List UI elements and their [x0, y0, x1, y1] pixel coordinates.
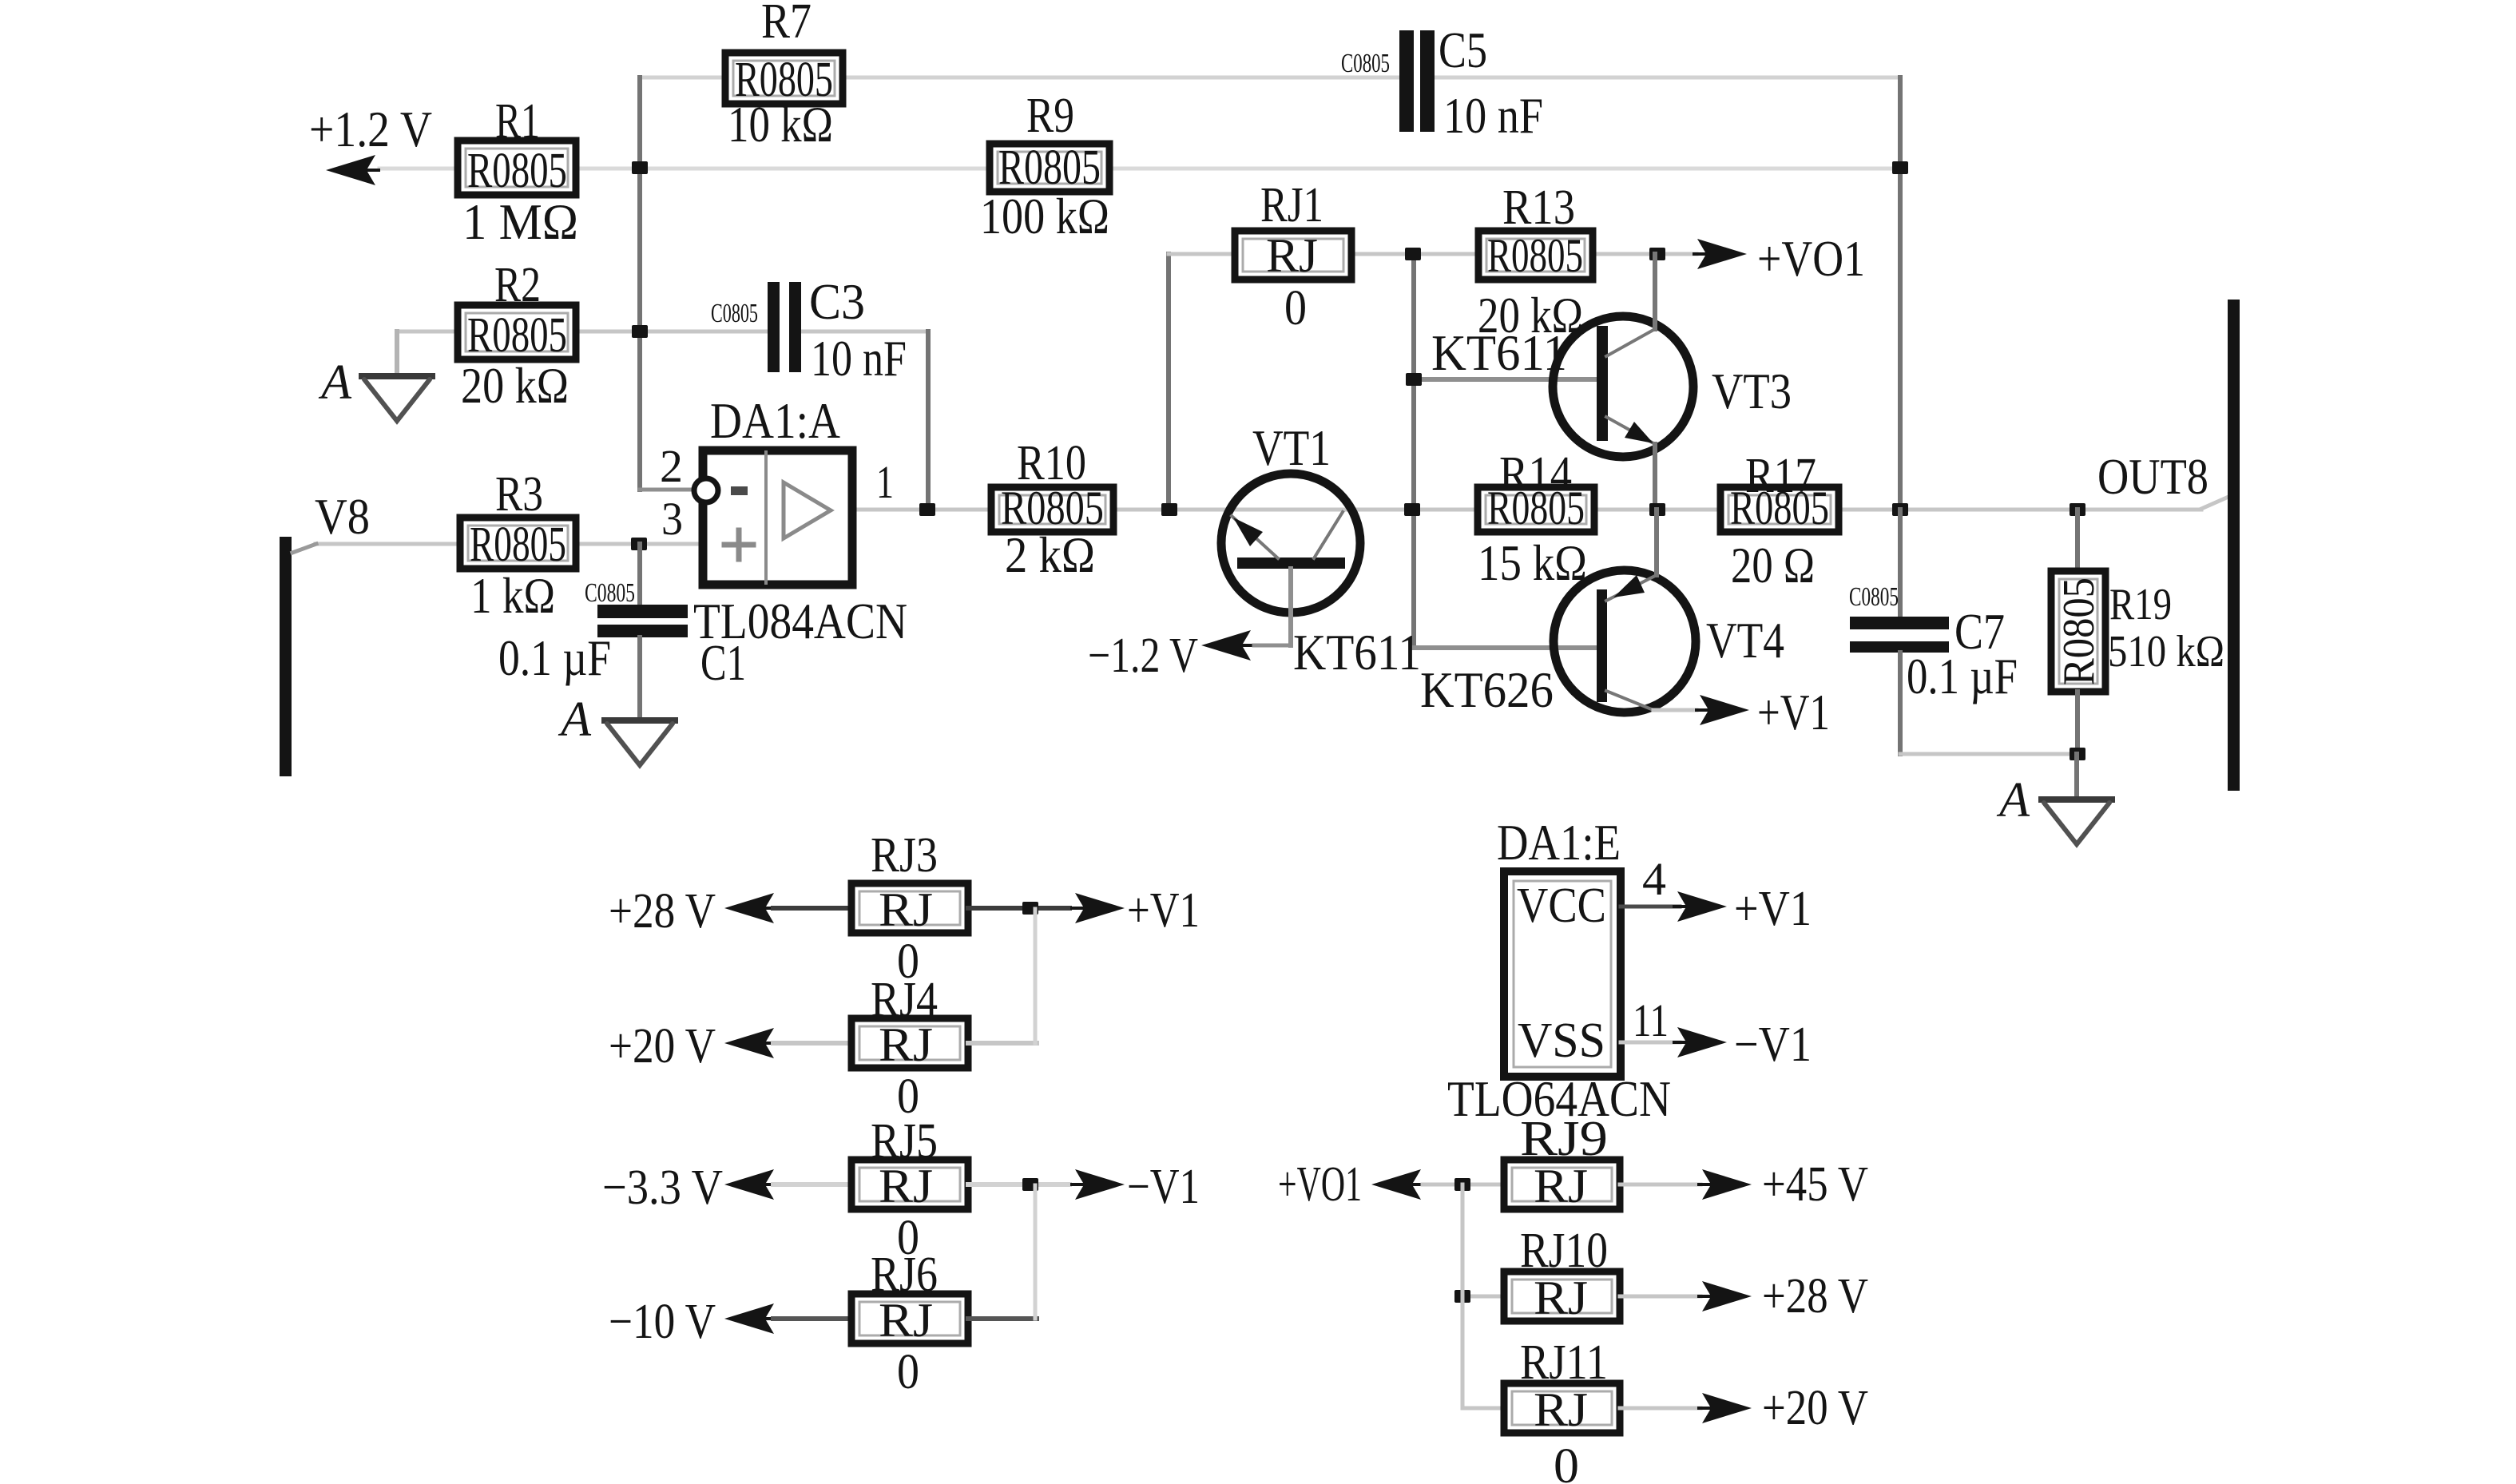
resistor R2 — [458, 305, 576, 359]
resistor R17 — [1720, 487, 1839, 532]
wire inverting input vertical x=801 — [637, 77, 642, 490]
svg-text:−1.2 V: −1.2 V — [1088, 629, 1198, 683]
jumper RJ1 — [1235, 231, 1351, 280]
svg-text:RJ: RJ — [1534, 1160, 1588, 1212]
svg-text:RJ6: RJ6 — [871, 1248, 938, 1302]
resistor R3 — [460, 518, 576, 569]
ground A (R2) — [395, 331, 399, 376]
pin 2 inverting bubble — [694, 478, 718, 502]
svg-text:RJ: RJ — [1266, 229, 1318, 282]
jumper RJ5 — [851, 1160, 968, 1209]
svg-text:VCC: VCC — [1517, 879, 1606, 933]
junction R2/x801 — [632, 325, 648, 338]
jumper RJ3 — [851, 883, 968, 933]
junction C3 feedback to output — [919, 503, 935, 516]
svg-text:+20 V: +20 V — [1762, 1381, 1868, 1435]
resistor R10 — [991, 487, 1113, 532]
svg-text:VT4: VT4 — [1706, 612, 1784, 669]
port +V1 (pin4) — [1673, 891, 1727, 922]
svg-text:1: 1 — [876, 456, 894, 508]
wire C3 to output node — [801, 330, 928, 334]
junction RJ10 left — [1454, 1290, 1470, 1303]
wire pin2 stub — [640, 488, 692, 492]
svg-text:R9: R9 — [1026, 89, 1074, 143]
svg-text:C0805: C0805 — [1341, 49, 1390, 78]
svg-text:+28 V: +28 V — [1762, 1269, 1868, 1323]
svg-text:−V1: −V1 — [1127, 1160, 1200, 1214]
junction RJ5 right — [1022, 1178, 1038, 1191]
wire top feedback rail y=97 — [640, 76, 1399, 80]
ground A (R19) — [2074, 754, 2079, 800]
op-amp U DA1:A — [703, 450, 852, 585]
capacitor C3 — [768, 282, 780, 372]
port +45 V (RJ9) — [1697, 1169, 1752, 1200]
svg-text:R0805: R0805 — [467, 308, 567, 363]
capacitor C7 — [1898, 510, 1903, 617]
svg-text:R0805: R0805 — [1487, 229, 1583, 282]
port -V1 (pin11) — [1673, 1027, 1727, 1057]
svg-text:−3.3 V: −3.3 V — [602, 1161, 723, 1215]
resistor R9 — [990, 144, 1109, 192]
jumper RJ11 — [1504, 1383, 1620, 1433]
junction R19 bottom — [2070, 748, 2085, 760]
svg-text:4: 4 — [1642, 853, 1666, 905]
junction feedback/C7 — [1892, 503, 1908, 516]
resistor R1 — [458, 141, 576, 195]
wire VT3 base y=475 — [1414, 377, 1597, 382]
svg-text:A: A — [318, 355, 352, 410]
svg-text:C0805: C0805 — [1849, 582, 1899, 612]
svg-text:VSS: VSS — [1518, 1014, 1605, 1068]
svg-text:+VO1: +VO1 — [1757, 230, 1865, 287]
junction R14 left — [1404, 503, 1420, 516]
wire base bus vertical x=1770 — [1411, 254, 1416, 648]
jumper RJ10 — [1504, 1272, 1620, 1321]
jumper RJ6 — [851, 1294, 968, 1343]
svg-text:RJ9: RJ9 — [1520, 1112, 1608, 1166]
svg-text:OUT8: OUT8 — [2097, 448, 2208, 505]
junction RJ3 right — [1022, 902, 1038, 915]
port +28 V (RJ10) — [1697, 1281, 1752, 1311]
wire pin 11 — [1621, 1041, 1680, 1045]
port −V1 — [1070, 1169, 1125, 1200]
wire OUT8 slant — [2201, 497, 2228, 509]
svg-text:R0805: R0805 — [470, 518, 566, 572]
svg-text:+20 V: +20 V — [609, 1019, 716, 1073]
svg-text:+1.2 V: +1.2 V — [309, 101, 432, 157]
svg-text:C0805: C0805 — [585, 578, 635, 608]
wire feedback rail y=210 (R1/R9 line) — [379, 167, 1900, 171]
junction output/VT1-collector — [1161, 503, 1177, 516]
transistor VT3 — [1553, 316, 1693, 457]
svg-text:3: 3 — [661, 493, 683, 545]
svg-text:DA1:E: DA1:E — [1497, 814, 1621, 871]
svg-text:VT3: VT3 — [1712, 363, 1792, 419]
junction VT3 base — [1406, 373, 1422, 386]
svg-text:R1: R1 — [495, 94, 540, 149]
junction feedback/x2379 — [1892, 161, 1908, 174]
svg-text:510 kΩ: 510 kΩ — [2108, 627, 2224, 677]
svg-text:2: 2 — [660, 440, 683, 492]
jumper RJ9 — [1504, 1160, 1620, 1209]
junction R13/VT3 collector — [1649, 248, 1665, 260]
wire RJ4 left — [773, 1041, 851, 1046]
svg-text:RJ1: RJ1 — [1260, 178, 1323, 232]
capacitor C5 — [1399, 30, 1414, 132]
wire RJ10 right — [1620, 1295, 1700, 1299]
svg-text:R10: R10 — [1017, 436, 1086, 490]
svg-text:R19: R19 — [2109, 580, 2172, 629]
wire R2 rail y=415 — [397, 330, 768, 334]
wire RJ10 left stub — [1462, 1295, 1504, 1299]
wire link RJ5-RJ6 — [1034, 1185, 1038, 1319]
svg-text:KT626: KT626 — [1420, 661, 1554, 718]
svg-text:R0805: R0805 — [998, 141, 1101, 195]
resistor R14 — [1478, 487, 1594, 532]
svg-text:V8: V8 — [315, 488, 370, 545]
wire link RJ9-RJ11 — [1461, 1184, 1465, 1408]
port V8 connector bar — [280, 537, 292, 776]
svg-text:+V1: +V1 — [1127, 883, 1200, 938]
svg-text:1 MΩ: 1 MΩ — [462, 193, 578, 250]
svg-text:VT1: VT1 — [1252, 419, 1331, 476]
svg-text:RJ11: RJ11 — [1520, 1335, 1608, 1390]
capacitor C1 — [637, 544, 642, 605]
svg-text:1 kΩ: 1 kΩ — [470, 567, 555, 624]
svg-text:20 kΩ: 20 kΩ — [461, 357, 569, 414]
svg-text:+V1: +V1 — [1734, 882, 1812, 936]
junction R1/x801 — [632, 161, 648, 174]
junction pin3/C1 — [631, 538, 647, 550]
wire output rail y=638 — [852, 508, 2201, 512]
svg-text:+28 V: +28 V — [609, 884, 716, 938]
svg-text:15 kΩ: 15 kΩ — [1478, 534, 1587, 591]
svg-text:+V1: +V1 — [1757, 684, 1830, 740]
wire RJ5 left — [773, 1182, 851, 1187]
svg-text:C0805: C0805 — [711, 299, 758, 328]
svg-text:R17: R17 — [1745, 449, 1816, 503]
svg-text:A: A — [558, 692, 592, 747]
wire RJ6 left — [773, 1316, 851, 1321]
wire VT4 base y=811 — [1414, 645, 1597, 650]
svg-text:R14: R14 — [1499, 447, 1572, 502]
resistor R19 (vertical) — [2075, 510, 2080, 571]
wire RJ9 right — [1620, 1183, 1700, 1187]
wire RJ3 right — [968, 906, 1069, 911]
svg-text:RJ: RJ — [879, 883, 933, 936]
wire link RJ3-RJ4 — [1034, 909, 1038, 1043]
resistor R13 — [1478, 231, 1593, 280]
svg-text:0: 0 — [897, 1345, 919, 1399]
svg-text:10 kΩ: 10 kΩ — [728, 96, 833, 153]
svg-text:20 Ω: 20 Ω — [1731, 537, 1815, 593]
svg-text:0.1 µF: 0.1 µF — [498, 629, 611, 686]
svg-text:RJ: RJ — [1534, 1272, 1588, 1324]
wire RJ6 right — [968, 1316, 1037, 1321]
port OUT8 connector bar — [2228, 300, 2240, 791]
svg-text:0: 0 — [1554, 1439, 1579, 1484]
junction R19 top — [2070, 503, 2085, 516]
svg-text:DA1:A: DA1:A — [710, 392, 840, 449]
transistor VT4 — [1554, 570, 1696, 712]
svg-text:RJ: RJ — [1534, 1383, 1588, 1436]
wire pin 4 — [1621, 905, 1680, 909]
svg-text:RJ10: RJ10 — [1520, 1224, 1608, 1278]
svg-text:+VO1: +VO1 — [1278, 1157, 1362, 1212]
jumper RJ4 — [851, 1018, 968, 1068]
svg-text:0: 0 — [1284, 281, 1307, 335]
transistor VT1 — [1221, 474, 1360, 613]
svg-text:+45 V: +45 V — [1762, 1157, 1868, 1212]
svg-text:C5: C5 — [1439, 22, 1487, 78]
svg-text:C1: C1 — [700, 634, 746, 691]
svg-text:C3: C3 — [809, 273, 865, 330]
wire pin3 rail y=681 — [315, 542, 703, 546]
svg-text:RJ4: RJ4 — [871, 973, 938, 1027]
port +V1 (VT4) — [1695, 695, 1749, 725]
svg-text:10 nF: 10 nF — [811, 330, 907, 387]
svg-text:KT611: KT611 — [1431, 324, 1567, 381]
wire RJ5 right — [968, 1182, 1069, 1187]
svg-text:0.1 µF: 0.1 µF — [1907, 648, 2018, 704]
svg-text:R0805: R0805 — [467, 144, 567, 198]
op-amp power block DA1:E — [1504, 871, 1621, 1077]
port +20 V (RJ11) — [1697, 1393, 1752, 1423]
junction RJ1/base bus — [1405, 248, 1421, 260]
wire RJ11 left stub — [1462, 1407, 1504, 1411]
wire RJ3 left — [773, 906, 851, 911]
wire RJ11 right — [1620, 1407, 1700, 1411]
resistor R7 — [725, 53, 843, 104]
svg-text:2 kΩ: 2 kΩ — [1005, 526, 1095, 583]
port +VO1 — [1693, 239, 1747, 269]
wire C7 to R19 bottom — [1900, 752, 2077, 756]
svg-text:R0805: R0805 — [2054, 577, 2104, 685]
svg-text:R2: R2 — [494, 258, 541, 312]
wire +VO1 to RJ9 — [1423, 1183, 1504, 1187]
svg-text:−10 V: −10 V — [609, 1295, 716, 1349]
svg-text:RJ5: RJ5 — [871, 1114, 938, 1169]
svg-text:RJ3: RJ3 — [871, 828, 938, 883]
svg-text:−V1: −V1 — [1734, 1018, 1812, 1072]
svg-text:100 kΩ: 100 kΩ — [980, 188, 1109, 244]
wire VT1 collector vertical x=1463 — [1166, 254, 1171, 510]
svg-text:11: 11 — [1633, 994, 1669, 1046]
junction push-pull node — [1649, 503, 1665, 516]
svg-text:R3: R3 — [495, 467, 543, 522]
wire RJ1/R13 rail y=318 — [1169, 252, 1697, 256]
svg-text:R13: R13 — [1502, 181, 1575, 235]
svg-text:R7: R7 — [761, 0, 812, 49]
junction RJ9 left — [1454, 1178, 1470, 1191]
svg-text:10 nF: 10 nF — [1443, 87, 1543, 144]
port +V1 — [1070, 893, 1125, 923]
svg-text:KT611: KT611 — [1293, 624, 1421, 680]
wire feedback vertical x=2379 — [1898, 77, 1903, 510]
wire RJ4 right — [968, 1041, 1037, 1046]
svg-text:A: A — [1996, 773, 2030, 827]
ground A (C1) — [637, 637, 642, 720]
